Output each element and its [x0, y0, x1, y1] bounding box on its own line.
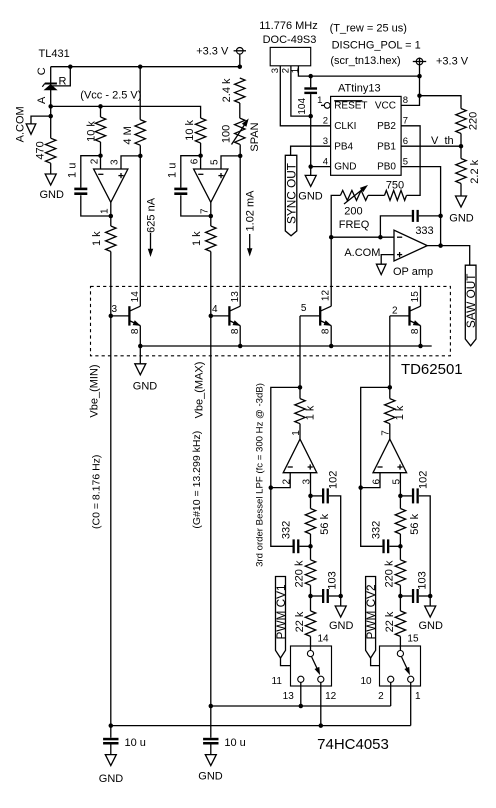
- label SAW OUT: [464, 273, 478, 328]
- ground symbol ATtiny: [305, 175, 316, 186]
- svg-text:1 u: 1 u: [67, 163, 79, 178]
- label 220: [468, 112, 480, 130]
- svg-text:5: 5: [392, 478, 403, 484]
- wire 1u cap2 to op-amp2 output: [181, 195, 211, 216]
- pin number 1 ATtiny: [317, 95, 322, 106]
- pin label 7 op-amp2: [200, 208, 211, 214]
- label GND LPF stage2: [418, 620, 443, 632]
- svg-text:332: 332: [370, 521, 382, 539]
- power rail +3.3V top-left horizontal wire: [51, 66, 240, 68]
- wire select pin flag to box U4B: [371, 658, 380, 666]
- terminal flag PWM CV1: [276, 577, 286, 659]
- switch contact circle A U4A: [298, 676, 304, 682]
- svg-text:GND: GND: [133, 380, 158, 392]
- ground symbol 10u left: [105, 755, 116, 766]
- pin label 12 switch U4A: [325, 691, 337, 702]
- pin number 3 ATtiny: [323, 136, 328, 147]
- svg-text:470: 470: [34, 141, 46, 159]
- op-amp U1A channel1: [94, 169, 128, 202]
- svg-text:3: 3: [323, 136, 328, 147]
- junction Q4 emitter: [418, 344, 423, 349]
- junction 333 cap left: [378, 235, 383, 240]
- analog switch box U4A: [291, 646, 332, 686]
- svg-text:8: 8: [403, 95, 408, 106]
- pin number 6 ATtiny: [403, 136, 408, 147]
- junction Q2 base: [209, 314, 214, 319]
- capacitor 1u channel1: [74, 189, 87, 194]
- svg-text:(T_rew = 25 us): (T_rew = 25 us): [330, 23, 407, 35]
- svg-text:1: 1: [291, 430, 302, 436]
- ground symbol 2.2k: [456, 196, 467, 207]
- label 2.2 k: [469, 159, 481, 183]
- svg-text:102: 102: [327, 471, 339, 489]
- svg-text:PB4: PB4: [334, 141, 353, 152]
- label 1 u channel1: [67, 163, 79, 178]
- pin label 15 switch top U4B: [407, 634, 419, 645]
- transistor Q2 (pins 4,13,8): [211, 306, 240, 346]
- svg-text:750: 750: [386, 179, 404, 191]
- switch common contact circle U4B: [397, 651, 403, 657]
- capacitor 103 LPF stage1: [311, 589, 341, 603]
- resistor 56k LPF stage1: [305, 509, 315, 535]
- pin label 14 Q1: [130, 291, 141, 303]
- analog switch box U4B: [380, 646, 421, 686]
- label 220 k LPF stage2: [383, 560, 395, 587]
- transistor Q4 (pins 2,15,8): [390, 286, 421, 346]
- svg-text:7: 7: [200, 208, 211, 214]
- svg-text:13: 13: [230, 291, 241, 303]
- switch common contact circle U4A: [307, 651, 313, 657]
- wire 22k to switch stage1: [310, 596, 312, 650]
- label GND ATtiny: [298, 190, 323, 202]
- RESET inversion bubble: [321, 103, 330, 109]
- svg-text:5: 5: [403, 156, 408, 167]
- junction 103/102 ground node stage1: [338, 594, 343, 599]
- resistor 220k LPF stage2: [395, 560, 405, 586]
- junction LPF feedback node stage1: [269, 485, 274, 490]
- wire 100 pot to pin5 node and Q2 collector: [239, 144, 241, 306]
- label 1 k LPF stage1: [304, 405, 316, 420]
- svg-text:8: 8: [230, 328, 241, 334]
- label GND 10u left: [99, 773, 124, 785]
- capacitor 102 LPF stage1: [311, 488, 341, 596]
- pin label 13 Q2: [230, 291, 241, 303]
- pin label 10 select U4B: [361, 676, 373, 687]
- resistor 1k LPF stage2: [385, 399, 395, 424]
- label 10 u left: [125, 737, 146, 749]
- svg-text:11: 11: [272, 676, 283, 687]
- label 10 k channel2: [184, 120, 196, 141]
- wire 104 cap leads: [310, 76, 312, 175]
- svg-text:A: A: [36, 96, 48, 104]
- wire Vbe_(MAX) column: [210, 252, 212, 738]
- TL431 shunt regulator U2: [42, 67, 57, 139]
- resistor 10k channel1: [95, 117, 105, 142]
- label 1 u channel2: [167, 163, 179, 178]
- svg-text:1: 1: [415, 691, 421, 702]
- pin label 13 switch U4A: [283, 691, 295, 702]
- label 200: [344, 206, 362, 218]
- label 103 LPF stage2: [416, 571, 428, 589]
- annotation arrow 625 nA: [148, 233, 153, 256]
- junction 10k1 on Vcc-2.5 rail: [98, 104, 103, 109]
- wire +3.3V to VCC pin: [401, 65, 419, 105]
- svg-text:Vbe_(MAX): Vbe_(MAX): [193, 362, 205, 419]
- svg-text:GND: GND: [329, 620, 354, 632]
- resistor 220k LPF stage1: [305, 560, 315, 586]
- junction 104 bottom / osc pin2: [308, 114, 313, 119]
- svg-text:10: 10: [361, 676, 373, 687]
- label 100: [221, 125, 233, 143]
- transistor Q3 (pins 5,12,8): [300, 306, 331, 346]
- pin label 2 op-amp1: [90, 158, 101, 164]
- resistor 22k LPF stage2: [395, 611, 405, 637]
- switch contact circle B U4A: [318, 676, 324, 682]
- resistor 470: [46, 138, 56, 163]
- wire +3.3V branch to 220: [420, 96, 462, 109]
- wire LPF feedback stage2: [361, 387, 390, 546]
- minus sign op-amp U3: [397, 236, 402, 238]
- svg-text:+3.3 V: +3.3 V: [436, 56, 469, 68]
- svg-text:A.COM: A.COM: [15, 106, 27, 142]
- minus sign op-amp1: [98, 173, 103, 175]
- pin label 5 Q3: [301, 303, 307, 314]
- emitter common rail pin 8: [140, 345, 431, 347]
- plus sign op-amp2: [218, 173, 223, 178]
- svg-text:333: 333: [415, 225, 433, 237]
- svg-text:SAW OUT: SAW OUT: [464, 273, 478, 328]
- label (scr_tn13.hex): [330, 55, 400, 67]
- capacitor 102 LPF stage2: [400, 488, 430, 596]
- svg-text:3rd order Bessel LPF (fc = 30: 3rd order Bessel LPF (fc = 300 Hz @ -3dB…: [254, 383, 265, 567]
- pin label 5 op-amp2: [210, 159, 221, 165]
- label 4 M: [122, 126, 134, 144]
- wire to LPF ground stage1: [340, 596, 342, 606]
- svg-text:GND: GND: [418, 620, 443, 632]
- junction op-amp2 pin6 node: [198, 153, 203, 158]
- svg-text:PWM CV1: PWM CV1: [274, 584, 288, 639]
- resistor 220: [456, 109, 466, 134]
- svg-text:4: 4: [212, 304, 218, 315]
- svg-text:VCC: VCC: [375, 101, 396, 112]
- label OP amp: [393, 266, 433, 278]
- label A.COM: [15, 106, 27, 142]
- junction 332/56k/220k node stage2: [398, 544, 403, 549]
- pin name PB1: [377, 141, 396, 152]
- capacitor 332 LPF stage2: [384, 539, 401, 553]
- wire switch pin 1 U4B: [410, 682, 412, 725]
- svg-text:8: 8: [410, 328, 421, 334]
- switch wiper arrow U4A: [312, 657, 320, 674]
- label 333: [415, 225, 433, 237]
- pin number 5 ATtiny: [403, 156, 408, 167]
- pin label 15 Q4: [410, 291, 421, 303]
- svg-text:332: 332: [280, 521, 292, 539]
- junction osc pin1 wire / +3.3V: [417, 74, 422, 79]
- label 10 u right: [224, 737, 245, 749]
- svg-text:2.2 k: 2.2 k: [469, 159, 481, 183]
- svg-text:TD62501: TD62501: [401, 361, 463, 378]
- capacitor 332 LPF stage1: [294, 539, 311, 553]
- svg-text:OP amp: OP amp: [393, 266, 433, 278]
- label V_th: [431, 135, 454, 147]
- junction Vbe_MAX rail: [209, 704, 214, 709]
- svg-text:5: 5: [210, 159, 221, 165]
- svg-text:1 u: 1 u: [167, 163, 179, 178]
- label 22 k LPF stage1: [294, 611, 306, 632]
- svg-text:104: 104: [297, 98, 308, 115]
- label TD62501: [401, 361, 463, 378]
- label 332 LPF stage2: [370, 521, 382, 539]
- capacitor 104: [304, 89, 317, 93]
- terminal flag SAW OUT: [465, 265, 476, 346]
- op-amp U3 sawtooth buffer: [394, 230, 427, 261]
- ground symbol LPF stage2: [425, 606, 436, 617]
- oscillator pin 3 wire to CLKI: [280, 66, 330, 126]
- junction op-amp output / PB0: [438, 243, 443, 248]
- junction +3.3V rail end: [238, 64, 243, 69]
- power symbol +3.3V left: [234, 48, 246, 67]
- junction cathode/R on top rail: [68, 64, 73, 69]
- pin label 1 oscillator: [290, 68, 301, 73]
- pin label 2 switch U4B: [378, 691, 384, 702]
- wire LPF feedback stage1: [271, 387, 300, 546]
- svg-text:PB0: PB0: [377, 162, 396, 173]
- svg-text:15: 15: [407, 634, 419, 645]
- IC ATtiny13 body: [331, 96, 402, 175]
- pin label 2 LPF stage1: [282, 478, 293, 484]
- svg-text:RESET: RESET: [334, 101, 367, 112]
- oscillator pin 1 wire to +3.3V node: [298, 66, 419, 76]
- wire 10u right to ground: [210, 745, 212, 755]
- wire 4M to pin3 node and Q1 collector: [139, 145, 141, 306]
- capacitor 10u left: [103, 739, 118, 743]
- label 1.02 mA: [244, 190, 256, 232]
- wire 220k leads stage2: [399, 546, 401, 596]
- ground symbol emitters: [135, 364, 146, 375]
- ground symbol LPF stage1: [335, 606, 346, 617]
- svg-text:CLKI: CLKI: [334, 121, 356, 132]
- pin label 6 op-amp2: [190, 158, 201, 164]
- wire 750 to 200 pot: [368, 194, 385, 196]
- capacitor 10u right: [203, 739, 218, 743]
- svg-text:GND: GND: [198, 770, 223, 782]
- svg-text:10 u: 10 u: [224, 737, 245, 749]
- capacitor 103 LPF stage2: [400, 589, 430, 603]
- wire 10k top to Vcc-2.5 rail: [100, 106, 102, 117]
- wire 2.2k to ground: [460, 184, 462, 197]
- wire op-amp1 output node: [110, 202, 112, 226]
- svg-text:102: 102: [417, 471, 429, 489]
- junction op-amp1 pin2 node: [98, 153, 103, 158]
- pin label 1 op-amp1: [100, 208, 111, 214]
- resistor 22k LPF stage1: [305, 611, 315, 637]
- wire 220 to V_th node: [460, 134, 462, 159]
- wire op-amp output to SAW OUT: [427, 246, 469, 266]
- svg-text:220: 220: [468, 112, 480, 130]
- svg-text:2: 2: [323, 116, 328, 127]
- svg-text:PB1: PB1: [377, 141, 396, 152]
- pin name PB0: [377, 162, 396, 173]
- svg-text:ATtiny13: ATtiny13: [338, 83, 381, 95]
- label 1 k LPF stage2: [394, 405, 406, 420]
- junction V_th node: [459, 144, 464, 149]
- svg-text:6: 6: [403, 136, 408, 147]
- wire 4M to +3.3V rail: [139, 67, 141, 120]
- switch contact circle B U4B: [408, 676, 414, 682]
- wire op-amp2 output node: [210, 202, 212, 226]
- label (T_rew = 25 us): [330, 23, 407, 35]
- pin name GND: [334, 162, 356, 173]
- svg-text:1 k: 1 k: [304, 405, 316, 420]
- label 220 k LPF stage1: [294, 560, 306, 587]
- svg-text:2: 2: [392, 306, 398, 317]
- resistor 1k LPF stage1: [295, 399, 305, 424]
- svg-text:Vbe_(MIN): Vbe_(MIN): [88, 364, 100, 417]
- wire PB4 to SYNC OUT: [291, 146, 331, 155]
- wire 333 cap left lead: [380, 216, 411, 237]
- junction Q1 base: [109, 314, 114, 319]
- svg-text:1: 1: [317, 95, 322, 106]
- wire 1k LPF leads stage2: [389, 387, 391, 439]
- svg-text:6: 6: [372, 478, 383, 484]
- label 104: [297, 98, 308, 115]
- wire PB0 to output node: [401, 167, 441, 246]
- junction anode/A.COM/470: [48, 114, 53, 119]
- op-amp LPF stage1: [283, 439, 317, 473]
- junction LPF input node stage2: [398, 494, 403, 499]
- label A.COM 2: [344, 247, 380, 259]
- wire 10k1 to op-amp inverting input: [100, 142, 102, 169]
- label SYNC OUT: [284, 163, 298, 224]
- label PWM CV1: [274, 584, 288, 639]
- potentiometer 200 FREQ: [340, 186, 368, 205]
- wire FREQ node to op-amp inverting: [331, 236, 394, 238]
- label 102 LPF stage2: [417, 471, 429, 489]
- pin label 6 LPF stage2: [372, 478, 383, 484]
- wire 1k LPF leads stage1: [299, 387, 301, 439]
- pin label 3 oscillator: [270, 68, 281, 73]
- label TL431: [39, 48, 70, 60]
- wire 200 pot to FREQ node: [331, 195, 340, 306]
- label 332 LPF stage1: [280, 521, 292, 539]
- pin name CLKI: [334, 121, 356, 132]
- svg-text:6: 6: [190, 158, 201, 164]
- resistor 2.2k: [456, 159, 466, 184]
- label DOC-49S3: [263, 34, 317, 46]
- wire feedback op-amp2 to 1u cap: [181, 156, 201, 188]
- svg-text:PWM CV2: PWM CV2: [364, 584, 378, 639]
- junction 103/102 ground node stage2: [428, 594, 433, 599]
- svg-text:74HC4053: 74HC4053: [317, 736, 389, 753]
- pin label 4 Q2: [212, 304, 218, 315]
- label SPAN: [249, 122, 261, 151]
- svg-text:3: 3: [110, 159, 121, 165]
- potentiometer 100 SPAN: [232, 118, 249, 144]
- plus sign LPF stage2: [397, 464, 402, 469]
- transistor Q1 (pins 3,14,8): [111, 306, 141, 346]
- minus sign op-amp2: [198, 173, 203, 175]
- annotation arrow 1.02 mA: [247, 234, 252, 256]
- wire 220k leads stage1: [310, 546, 312, 596]
- pin number 4 ATtiny: [323, 156, 328, 167]
- svg-text:22 k: 22 k: [384, 611, 396, 632]
- svg-text:7: 7: [403, 116, 408, 127]
- wire Vbe_(MIN) column: [110, 252, 112, 738]
- svg-text:4: 4: [323, 156, 328, 167]
- label 11.776 MHz: [259, 20, 318, 32]
- junction 333 right / PB0: [438, 214, 443, 219]
- label 102 LPF stage1: [327, 471, 339, 489]
- svg-text:10 u: 10 u: [125, 737, 146, 749]
- ground symbol below 470: [45, 174, 56, 185]
- svg-text:GND: GND: [298, 190, 323, 202]
- junction ATtiny GND pin node: [308, 164, 313, 169]
- pin name VCC: [375, 101, 396, 112]
- capacitor 1u channel2: [174, 189, 187, 194]
- junction Q1 emitter: [138, 344, 143, 349]
- svg-text:200: 200: [344, 206, 362, 218]
- wire A.COM to op-amp plus: [381, 255, 394, 265]
- svg-text:GND: GND: [449, 212, 474, 224]
- junction op-amp2 pin5 node: [238, 154, 243, 159]
- pin label 2 oscillator: [280, 68, 291, 73]
- label ATtiny13: [338, 83, 381, 95]
- wire switch pin 13 U4A: [300, 682, 302, 706]
- svg-text:V_th: V_th: [431, 135, 454, 147]
- label Vbe_(MAX): [193, 362, 205, 419]
- pin label 8 Q1: [130, 328, 141, 334]
- junction Q3 emitter: [329, 344, 334, 349]
- svg-text:3: 3: [302, 478, 313, 484]
- junction LPF top node x389 stage2: [388, 385, 393, 390]
- terminal flag SYNC OUT: [285, 155, 297, 236]
- ground symbol 10u right: [205, 755, 216, 766]
- label (G#10 = 13.299 kHz): [191, 431, 203, 529]
- pin label 11 select U4A: [272, 676, 283, 687]
- label GND 10u right: [198, 770, 223, 782]
- svg-text:220 k: 220 k: [294, 560, 306, 587]
- junction 220k/103/22k node stage2: [398, 594, 403, 599]
- svg-text:8: 8: [130, 328, 141, 334]
- label GND LPF stage1: [329, 620, 354, 632]
- svg-text:56 k: 56 k: [319, 513, 331, 534]
- pin label 8 Q2: [230, 328, 241, 334]
- wire LPF top node to base Q stage2: [389, 316, 391, 388]
- svg-text:SPAN: SPAN: [249, 122, 261, 151]
- resistor 10k channel2: [195, 118, 205, 143]
- label 56 k LPF stage2: [409, 513, 421, 534]
- label 625 nA: [145, 197, 157, 233]
- wire PB1 to V_th: [401, 145, 461, 147]
- junction LPF feedback node stage2: [358, 485, 363, 490]
- svg-text:GND: GND: [39, 189, 64, 201]
- label DISCHG_POL = 1: [332, 40, 421, 52]
- pin label 3 LPF stage1: [302, 478, 313, 484]
- svg-text:103: 103: [326, 571, 338, 589]
- resistor 750: [385, 190, 407, 200]
- label GND 2.2k: [449, 212, 474, 224]
- wire 470 to ground: [50, 163, 52, 174]
- pin label 8 Q3: [321, 328, 332, 334]
- label (Vcc - 2.5 V): [80, 90, 141, 102]
- svg-text:PB2: PB2: [377, 121, 396, 132]
- pin label 7 LPF out stage2: [381, 430, 392, 436]
- svg-text:7: 7: [381, 430, 392, 436]
- svg-text:2: 2: [378, 691, 384, 702]
- transistor array TD62501 dashed outline: [91, 286, 451, 355]
- svg-text:(C0 = 8.176 Hz): (C0 = 8.176 Hz): [91, 455, 103, 529]
